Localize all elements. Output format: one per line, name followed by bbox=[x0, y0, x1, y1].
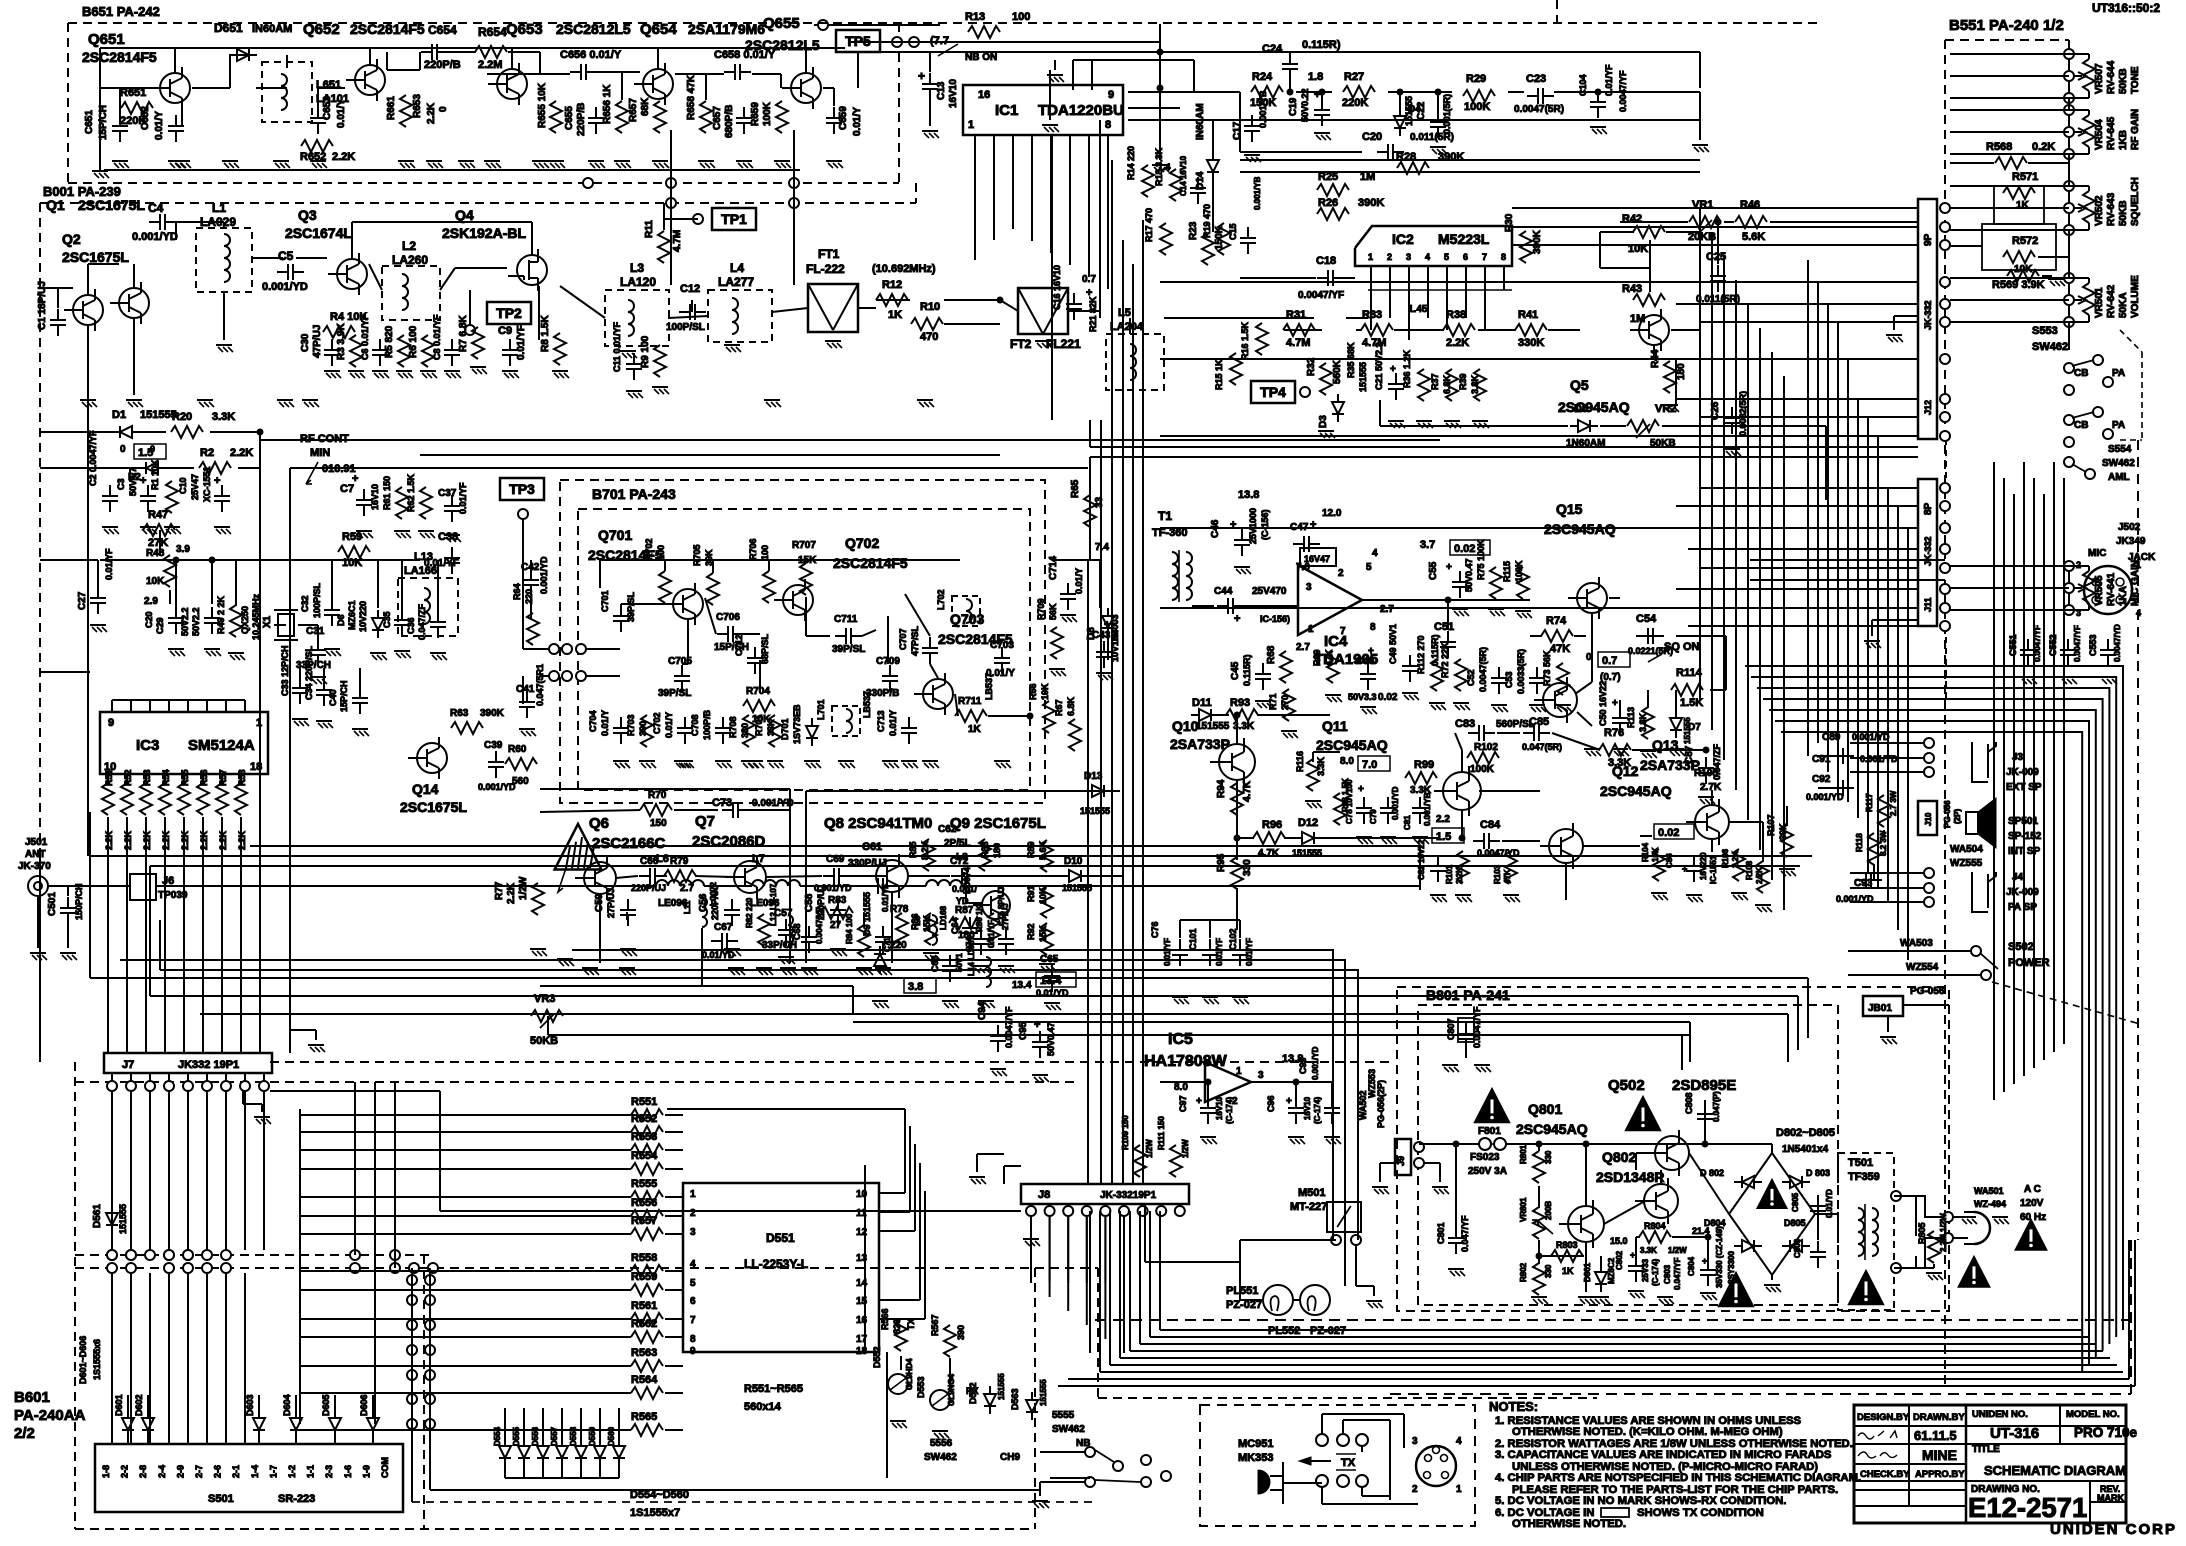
svg-text:0.01/Y: 0.01/Y bbox=[1074, 568, 1084, 594]
svg-text:0.01/YF: 0.01/YF bbox=[516, 325, 527, 360]
svg-text:R13: R13 bbox=[965, 11, 985, 23]
svg-text:390: 390 bbox=[956, 1325, 966, 1340]
svg-text:R116: R116 bbox=[1295, 751, 1305, 772]
svg-text:R567: R567 bbox=[930, 1314, 940, 1336]
svg-text:IC-156): IC-156) bbox=[1260, 614, 1290, 624]
svg-text:R41: R41 bbox=[1518, 309, 1538, 321]
svg-text:2SC1674L: 2SC1674L bbox=[285, 225, 352, 241]
svg-text:7.0: 7.0 bbox=[1362, 759, 1377, 771]
svg-text:TDA1905: TDA1905 bbox=[1314, 651, 1378, 668]
svg-text:180: 180 bbox=[1676, 363, 1687, 380]
svg-text:L4: L4 bbox=[730, 261, 744, 275]
svg-text:C101: C101 bbox=[1188, 928, 1198, 950]
svg-text:R46: R46 bbox=[1740, 199, 1760, 211]
svg-text:R66: R66 bbox=[1028, 683, 1038, 700]
svg-text:C805: C805 bbox=[1791, 1192, 1800, 1212]
svg-text:C702: C702 bbox=[652, 712, 662, 734]
svg-text:2.7 3W: 2.7 3W bbox=[1889, 790, 1898, 816]
svg-text:R16 1.5K: R16 1.5K bbox=[1240, 321, 1250, 360]
svg-text:8: 8 bbox=[1370, 622, 1376, 633]
svg-text:R84 100: R84 100 bbox=[845, 913, 854, 944]
svg-text:C94: C94 bbox=[977, 1001, 988, 1020]
svg-text:R10: R10 bbox=[920, 301, 940, 313]
svg-text:R654: R654 bbox=[478, 25, 507, 39]
svg-text:S501: S501 bbox=[208, 1493, 234, 1505]
svg-text:39P/SL: 39P/SL bbox=[658, 688, 691, 699]
svg-text:0.001/YD: 0.001/YD bbox=[1806, 792, 1844, 802]
svg-text:3: 3 bbox=[1306, 582, 1312, 593]
svg-text:151555: 151555 bbox=[1080, 806, 1110, 816]
svg-text:R563: R563 bbox=[631, 1347, 657, 1359]
svg-text:5. DC VOLTAGE IN NO MARK SHOWS: 5. DC VOLTAGE IN NO MARK SHOWS-RX CONDIT… bbox=[1495, 1495, 1786, 1507]
svg-text:D6: D6 bbox=[336, 614, 346, 626]
svg-text:C55: C55 bbox=[1428, 561, 1439, 580]
svg-text:100P/B: 100P/B bbox=[702, 709, 712, 740]
svg-text:WZ-494: WZ-494 bbox=[1974, 1199, 2006, 1209]
svg-text:50V2.2: 50V2.2 bbox=[191, 607, 201, 636]
svg-text:D3: D3 bbox=[1318, 415, 1329, 428]
svg-text:LA120: LA120 bbox=[620, 275, 656, 289]
svg-text:R62 1.5K: R62 1.5K bbox=[406, 473, 416, 512]
svg-text:RV-642: RV-642 bbox=[2106, 284, 2117, 318]
svg-text:C53: C53 bbox=[1504, 671, 1514, 688]
svg-text:J7: J7 bbox=[122, 1059, 134, 1071]
svg-text:R47: R47 bbox=[148, 509, 168, 521]
svg-text:Q12: Q12 bbox=[1612, 763, 1639, 779]
svg-text:1/2W: 1/2W bbox=[518, 876, 529, 900]
svg-text:D601: D601 bbox=[114, 1394, 124, 1416]
svg-text:151555: 151555 bbox=[997, 1373, 1006, 1400]
svg-text:SW462: SW462 bbox=[2102, 458, 2135, 469]
svg-text:25V1000: 25V1000 bbox=[1248, 508, 1258, 544]
svg-text:0.01/YF: 0.01/YF bbox=[1215, 938, 1224, 966]
svg-text:R709: R709 bbox=[1036, 598, 1046, 620]
svg-text:R558: R558 bbox=[631, 1252, 657, 1264]
svg-text:R14 220: R14 220 bbox=[1126, 146, 1136, 180]
svg-text:50V0.22: 50V0.22 bbox=[1300, 88, 1310, 122]
svg-text:R93: R93 bbox=[1230, 697, 1250, 709]
svg-text:C31: C31 bbox=[306, 626, 325, 637]
svg-text:R74: R74 bbox=[1546, 615, 1567, 627]
svg-text:68K: 68K bbox=[640, 97, 651, 116]
svg-text:R657: R657 bbox=[628, 98, 639, 122]
svg-text:5555: 5555 bbox=[1052, 1410, 1075, 1421]
svg-text:VR501: VR501 bbox=[2094, 287, 2105, 318]
svg-text:1M: 1M bbox=[1630, 313, 1645, 325]
svg-text:0.0047/YF: 0.0047/YF bbox=[1618, 70, 1628, 112]
svg-text:0.047/ZF: 0.047/ZF bbox=[417, 603, 427, 640]
svg-text:Q11: Q11 bbox=[1322, 718, 1348, 734]
svg-text:16V10: 16V10 bbox=[1215, 1096, 1224, 1120]
svg-text:2.2K: 2.2K bbox=[426, 102, 437, 124]
svg-text:R2: R2 bbox=[200, 447, 214, 459]
svg-text:R86: R86 bbox=[910, 913, 920, 930]
svg-text:3: 3 bbox=[1406, 252, 1411, 262]
svg-text:12.0: 12.0 bbox=[1322, 508, 1342, 519]
svg-text:1-9: 1-9 bbox=[361, 1465, 371, 1478]
svg-text:2SC2814F5: 2SC2814F5 bbox=[350, 21, 425, 37]
svg-text:25V33: 25V33 bbox=[1641, 1258, 1650, 1282]
svg-text:R561: R561 bbox=[631, 1300, 657, 1312]
svg-text:0.001/YB: 0.001/YB bbox=[1423, 792, 1432, 826]
svg-text:220P/UJ: 220P/UJ bbox=[631, 883, 666, 893]
svg-text:M501: M501 bbox=[1298, 1187, 1326, 1199]
svg-text:C27: C27 bbox=[77, 591, 88, 610]
svg-text:R73 56K: R73 56K bbox=[1542, 650, 1552, 686]
svg-text:0.001/YD: 0.001/YD bbox=[262, 281, 308, 293]
svg-text:TX: TX bbox=[906, 1318, 916, 1330]
svg-text:4: 4 bbox=[1456, 1436, 1462, 1447]
svg-text:R83: R83 bbox=[828, 895, 847, 906]
svg-text:SHOWS TX CONDITION: SHOWS TX CONDITION bbox=[1637, 1507, 1764, 1519]
svg-text:150P/CH: 150P/CH bbox=[74, 883, 84, 920]
svg-text:1: 1 bbox=[968, 119, 974, 131]
svg-text:7.4: 7.4 bbox=[1095, 542, 1109, 553]
svg-text:2SC1675L: 2SC1675L bbox=[78, 197, 145, 213]
svg-text:1KB: 1KB bbox=[2118, 130, 2129, 150]
svg-text:4.7K: 4.7K bbox=[1242, 780, 1253, 802]
svg-text:+: + bbox=[1286, 1096, 1292, 1107]
svg-text:R70: R70 bbox=[648, 790, 667, 801]
svg-text:WZ553: WZ553 bbox=[1367, 1069, 1377, 1098]
svg-text:C24: C24 bbox=[1262, 43, 1283, 55]
svg-text:100K: 100K bbox=[1470, 764, 1495, 775]
svg-text:C711: C711 bbox=[834, 614, 858, 625]
svg-text:D651: D651 bbox=[214, 21, 243, 35]
svg-text:J9: J9 bbox=[1396, 1156, 1406, 1166]
svg-text:CHECK.BY: CHECK.BY bbox=[1860, 1469, 1910, 1480]
svg-text:R68: R68 bbox=[1266, 645, 1277, 664]
svg-text:D602: D602 bbox=[134, 1394, 144, 1416]
svg-text:R703: R703 bbox=[626, 714, 636, 736]
svg-text:SQ ON: SQ ON bbox=[1664, 641, 1700, 653]
svg-text:RV-643: RV-643 bbox=[2106, 192, 2117, 226]
svg-text:10K: 10K bbox=[1040, 683, 1050, 700]
svg-text:Q3: Q3 bbox=[298, 207, 317, 223]
svg-text:R702: R702 bbox=[644, 538, 654, 560]
svg-text:8: 8 bbox=[690, 1334, 696, 1345]
svg-text:PL551: PL551 bbox=[1226, 1285, 1258, 1297]
svg-text:0.7: 0.7 bbox=[1602, 655, 1617, 667]
svg-text:2SA1179M6: 2SA1179M6 bbox=[688, 21, 765, 37]
svg-text:R551: R551 bbox=[631, 1096, 657, 1108]
svg-text:R555: R555 bbox=[631, 1178, 657, 1190]
svg-text:PRO 710e: PRO 710e bbox=[2074, 1425, 2138, 1440]
svg-text:B651 PA-242: B651 PA-242 bbox=[82, 4, 160, 19]
svg-text:C102: C102 bbox=[1228, 928, 1238, 950]
svg-text:151555: 151555 bbox=[118, 1204, 128, 1234]
svg-text:+: + bbox=[1234, 613, 1240, 625]
svg-text:7: 7 bbox=[1482, 252, 1487, 262]
svg-text:C81: C81 bbox=[1403, 815, 1412, 830]
svg-text:Q652: Q652 bbox=[303, 21, 340, 38]
svg-text:C33 12P/CH: C33 12P/CH bbox=[280, 645, 290, 696]
svg-text:C79: C79 bbox=[1369, 809, 1378, 824]
svg-text:R21 82K: R21 82K bbox=[1088, 296, 1098, 332]
svg-text:150K: 150K bbox=[1250, 97, 1276, 109]
svg-text:R91: R91 bbox=[1026, 885, 1036, 902]
svg-text:VOLUME: VOLUME bbox=[2130, 275, 2141, 318]
svg-text:100: 100 bbox=[1012, 11, 1030, 23]
svg-text:15.0: 15.0 bbox=[1610, 1236, 1628, 1246]
svg-text:R29: R29 bbox=[1466, 73, 1486, 85]
svg-text:R23: R23 bbox=[1188, 221, 1199, 240]
svg-text:7: 7 bbox=[690, 1315, 696, 1326]
svg-text:100P/SL: 100P/SL bbox=[312, 582, 322, 618]
svg-text:TF359: TF359 bbox=[1848, 1171, 1880, 1183]
svg-text:2.7: 2.7 bbox=[680, 883, 694, 894]
svg-text:R17 470: R17 470 bbox=[1144, 208, 1154, 242]
svg-text:WZ555: WZ555 bbox=[1950, 858, 1983, 869]
svg-text:C801: C801 bbox=[1436, 1222, 1446, 1244]
svg-text:LA204: LA204 bbox=[1110, 321, 1144, 333]
svg-text:2SA733P: 2SA733P bbox=[1170, 736, 1230, 752]
svg-text:D5: D5 bbox=[1574, 403, 1588, 415]
svg-text:0.01/YF: 0.01/YF bbox=[1163, 938, 1172, 966]
svg-text:2-4: 2-4 bbox=[157, 1465, 167, 1478]
svg-text:13.4: 13.4 bbox=[1040, 975, 1062, 987]
svg-text:L13: L13 bbox=[414, 551, 433, 563]
svg-text:+: + bbox=[1358, 784, 1364, 795]
svg-text:LD168: LD168 bbox=[939, 905, 948, 930]
svg-text:50V0.47: 50V0.47 bbox=[1464, 558, 1474, 592]
svg-text:VR801: VR801 bbox=[1519, 1197, 1528, 1222]
svg-text:100K: 100K bbox=[1464, 101, 1490, 113]
svg-text:R39: R39 bbox=[1458, 373, 1468, 390]
svg-text:47P/UJ: 47P/UJ bbox=[312, 325, 323, 358]
svg-text:+: + bbox=[1310, 519, 1316, 531]
svg-text:JK-332: JK-332 bbox=[1923, 300, 1933, 330]
svg-text:4: 4 bbox=[1425, 252, 1430, 262]
svg-text:R3 3.9K: R3 3.9K bbox=[336, 323, 347, 360]
svg-text:MZ6C1: MZ6C1 bbox=[347, 600, 357, 630]
svg-text:330: 330 bbox=[1544, 1264, 1553, 1278]
svg-text:UT316::50:2: UT316::50:2 bbox=[2092, 1, 2160, 15]
svg-text:C15: C15 bbox=[1228, 223, 1238, 240]
svg-text:1-2: 1-2 bbox=[287, 1465, 297, 1478]
svg-text:5556: 5556 bbox=[930, 1438, 953, 1449]
svg-text:9P: 9P bbox=[1923, 233, 1934, 246]
svg-text:IC-1551: IC-1551 bbox=[1709, 855, 1718, 884]
svg-text:2: 2 bbox=[1387, 252, 1392, 262]
svg-text:+: + bbox=[1034, 1019, 1040, 1031]
svg-text:J10: J10 bbox=[1924, 812, 1933, 826]
svg-text:2.7: 2.7 bbox=[1380, 604, 1394, 615]
svg-text:PG-056: PG-056 bbox=[1943, 800, 1952, 828]
svg-text:R565: R565 bbox=[631, 1411, 657, 1423]
svg-text:MK353: MK353 bbox=[1238, 1452, 1273, 1464]
svg-text:C51: C51 bbox=[1434, 621, 1454, 633]
svg-text:X1: X1 bbox=[262, 615, 273, 628]
svg-text:+: + bbox=[1230, 519, 1236, 531]
svg-text:TDA1220BU: TDA1220BU bbox=[1038, 102, 1124, 119]
svg-text:330: 330 bbox=[1544, 1150, 1553, 1164]
svg-text:SW462: SW462 bbox=[924, 1452, 957, 1463]
svg-text:R76: R76 bbox=[1604, 727, 1624, 739]
svg-text:151555: 151555 bbox=[1196, 721, 1230, 732]
svg-text:470: 470 bbox=[920, 331, 938, 343]
svg-text:390K: 390K bbox=[1532, 229, 1543, 254]
svg-text:R105: R105 bbox=[1694, 768, 1718, 779]
svg-text:2SK192A-BL: 2SK192A-BL bbox=[442, 225, 526, 241]
svg-text:DRAWN.BY: DRAWN.BY bbox=[1913, 1412, 1965, 1423]
svg-text:C32: C32 bbox=[300, 595, 310, 612]
svg-text:R659: R659 bbox=[750, 102, 761, 126]
svg-text:D604: D604 bbox=[282, 1394, 292, 1416]
svg-text:C50 16V22: C50 16V22 bbox=[1598, 681, 1608, 726]
svg-text:MIN: MIN bbox=[310, 447, 330, 459]
svg-text:0.01/YF: 0.01/YF bbox=[458, 482, 468, 514]
svg-text:1: 1 bbox=[1456, 1484, 1462, 1495]
svg-text:C97: C97 bbox=[1178, 1095, 1188, 1112]
svg-text:FL-222: FL-222 bbox=[806, 262, 845, 276]
svg-text:(C-174): (C-174) bbox=[1225, 1097, 1234, 1124]
svg-text:2SC945AQ: 2SC945AQ bbox=[1316, 737, 1388, 753]
svg-text:2-3: 2-3 bbox=[324, 1465, 334, 1478]
svg-text:D551: D551 bbox=[766, 1231, 795, 1245]
svg-text:R28: R28 bbox=[1396, 151, 1416, 163]
svg-text:0.0047/YF: 0.0047/YF bbox=[1004, 1006, 1014, 1048]
svg-text:SR-223: SR-223 bbox=[278, 1493, 315, 1505]
svg-text:TP2: TP2 bbox=[496, 305, 522, 321]
svg-text:C45: C45 bbox=[1230, 661, 1241, 680]
svg-text:VR502: VR502 bbox=[2094, 195, 2105, 226]
svg-text:R701: R701 bbox=[754, 714, 764, 736]
svg-text:JACK: JACK bbox=[2128, 552, 2156, 563]
svg-text:50V3.3: 50V3.3 bbox=[1348, 692, 1377, 702]
svg-text:0.001/YD: 0.001/YD bbox=[539, 556, 549, 594]
svg-text:C20: C20 bbox=[144, 611, 154, 628]
svg-text:4: 4 bbox=[690, 1259, 696, 1270]
svg-text:R9 100: R9 100 bbox=[640, 335, 651, 368]
svg-text:C35: C35 bbox=[382, 611, 392, 628]
svg-text:C73: C73 bbox=[712, 797, 732, 809]
svg-text:0.01/Y: 0.01/Y bbox=[600, 710, 610, 736]
svg-text:R805: R805 bbox=[1917, 1222, 1927, 1244]
svg-text:C95: C95 bbox=[1018, 1021, 1029, 1040]
svg-text:D606: D606 bbox=[359, 1394, 369, 1416]
svg-text:560x14: 560x14 bbox=[744, 1401, 782, 1413]
svg-text:(2P): (2P) bbox=[1953, 809, 1962, 824]
svg-text:CH9: CH9 bbox=[1000, 1452, 1020, 1463]
svg-text:10K: 10K bbox=[146, 576, 165, 587]
svg-text:PA: PA bbox=[2112, 420, 2125, 431]
svg-text:C658 0.01/Y: C658 0.01/Y bbox=[714, 49, 776, 61]
svg-text:220P/B: 220P/B bbox=[576, 103, 587, 136]
svg-text:S502: S502 bbox=[2008, 941, 2034, 953]
svg-text:D12: D12 bbox=[1298, 817, 1318, 829]
svg-text:6.8K: 6.8K bbox=[1066, 696, 1076, 716]
svg-text:2: 2 bbox=[690, 1208, 696, 1219]
svg-text:3: 3 bbox=[690, 1227, 696, 1238]
svg-text:(10.692MHz): (10.692MHz) bbox=[872, 263, 936, 275]
svg-text:Q4: Q4 bbox=[455, 207, 474, 223]
svg-text:MIC: MIC bbox=[2088, 548, 2106, 559]
svg-text:50V0.47: 50V0.47 bbox=[1046, 1022, 1056, 1056]
svg-text:8: 8 bbox=[1105, 119, 1111, 131]
svg-text:C501: C501 bbox=[47, 892, 58, 916]
svg-text:R48: R48 bbox=[146, 548, 165, 559]
svg-text:3.7: 3.7 bbox=[1420, 539, 1435, 551]
svg-text:WZ554: WZ554 bbox=[1906, 962, 1939, 973]
svg-text:IC3: IC3 bbox=[136, 737, 159, 754]
svg-text:3.9: 3.9 bbox=[176, 544, 190, 555]
svg-text:5: 5 bbox=[1444, 252, 1449, 262]
svg-text:C18: C18 bbox=[1316, 255, 1336, 267]
svg-text:C11 0.01/YF: C11 0.01/YF bbox=[612, 321, 622, 372]
svg-text:C4: C4 bbox=[148, 201, 164, 215]
svg-text:R114: R114 bbox=[1676, 667, 1703, 679]
svg-text:OTHERWISE NOTED.: OTHERWISE NOTED. bbox=[1512, 1518, 1626, 1530]
svg-text:0.01/Y: 0.01/Y bbox=[664, 712, 674, 738]
svg-text:MT-227: MT-227 bbox=[1290, 1201, 1327, 1213]
svg-text:2-1: 2-1 bbox=[231, 1465, 241, 1478]
svg-text:Q8 2SC941TM0: Q8 2SC941TM0 bbox=[824, 815, 932, 832]
svg-text:C87: C87 bbox=[1684, 745, 1695, 764]
svg-text:C655: C655 bbox=[564, 106, 575, 130]
svg-text:C654: C654 bbox=[428, 23, 457, 37]
svg-text:APPRO.BY: APPRO.BY bbox=[1915, 1469, 1965, 1480]
svg-text:R92: R92 bbox=[1026, 923, 1036, 940]
svg-text:JK-332: JK-332 bbox=[1923, 536, 1933, 566]
svg-text:C96: C96 bbox=[1266, 1095, 1276, 1112]
svg-text:151555: 151555 bbox=[1039, 1379, 1048, 1406]
svg-text:TONE: TONE bbox=[2130, 66, 2141, 94]
svg-text:IN60AM: IN60AM bbox=[252, 23, 292, 35]
svg-text:0.047/YF: 0.047/YF bbox=[1460, 1215, 1470, 1252]
svg-text:13.8: 13.8 bbox=[1238, 489, 1259, 501]
svg-text:R65: R65 bbox=[1070, 479, 1081, 498]
svg-text:C704: C704 bbox=[588, 710, 598, 732]
svg-text:C20: C20 bbox=[1362, 131, 1382, 143]
svg-text:4. CHIP PARTS ARE NOTSPECIFIED: 4. CHIP PARTS ARE NOTSPECIFIED IN THIS S… bbox=[1495, 1472, 1861, 1484]
svg-text:R568: R568 bbox=[1986, 141, 2012, 153]
svg-text:MC951: MC951 bbox=[1238, 1438, 1273, 1450]
svg-text:R571: R571 bbox=[2012, 171, 2038, 183]
svg-text:C41: C41 bbox=[516, 684, 535, 695]
svg-text:Q653: Q653 bbox=[506, 21, 543, 38]
svg-text:0.047(5R1: 0.047(5R1 bbox=[535, 664, 545, 706]
svg-text:T501: T501 bbox=[1848, 1157, 1873, 1169]
svg-text:1N5401x4: 1N5401x4 bbox=[1782, 1144, 1829, 1155]
svg-text:151555: 151555 bbox=[1358, 362, 1368, 392]
svg-text:250V 3A: 250V 3A bbox=[1468, 1166, 1507, 1177]
svg-text:2SC1675L: 2SC1675L bbox=[400, 799, 467, 815]
svg-text:4.7M: 4.7M bbox=[672, 230, 683, 252]
svg-text:TITLE: TITLE bbox=[1972, 1444, 2000, 1455]
svg-text:C12: C12 bbox=[680, 283, 700, 295]
svg-text:TP4: TP4 bbox=[1260, 384, 1286, 400]
svg-text:R117: R117 bbox=[1865, 793, 1874, 812]
svg-text:D562: D562 bbox=[968, 1382, 978, 1404]
svg-text:2SC1675L: 2SC1675L bbox=[62, 249, 129, 265]
svg-text:LB537: LB537 bbox=[984, 673, 994, 700]
svg-text:SCHEMATIC DIAGRAM: SCHEMATIC DIAGRAM bbox=[1984, 1463, 2126, 1478]
svg-text:33: 33 bbox=[1094, 496, 1105, 508]
svg-text:R113: R113 bbox=[1626, 707, 1636, 728]
svg-text:R562: R562 bbox=[631, 1318, 657, 1330]
svg-text:100: 100 bbox=[656, 545, 666, 560]
svg-text:2.2K: 2.2K bbox=[1446, 337, 1469, 349]
svg-text:R27: R27 bbox=[1344, 71, 1364, 83]
svg-text:8.0: 8.0 bbox=[1340, 756, 1354, 767]
svg-text:0.001/YD: 0.001/YD bbox=[1391, 786, 1400, 820]
svg-text:150: 150 bbox=[650, 818, 667, 829]
svg-text:R20: R20 bbox=[172, 411, 192, 423]
svg-text:Q801: Q801 bbox=[1528, 1101, 1562, 1117]
svg-text:0.01/Y: 0.01/Y bbox=[154, 111, 165, 140]
svg-text:Q654: Q654 bbox=[640, 21, 677, 38]
